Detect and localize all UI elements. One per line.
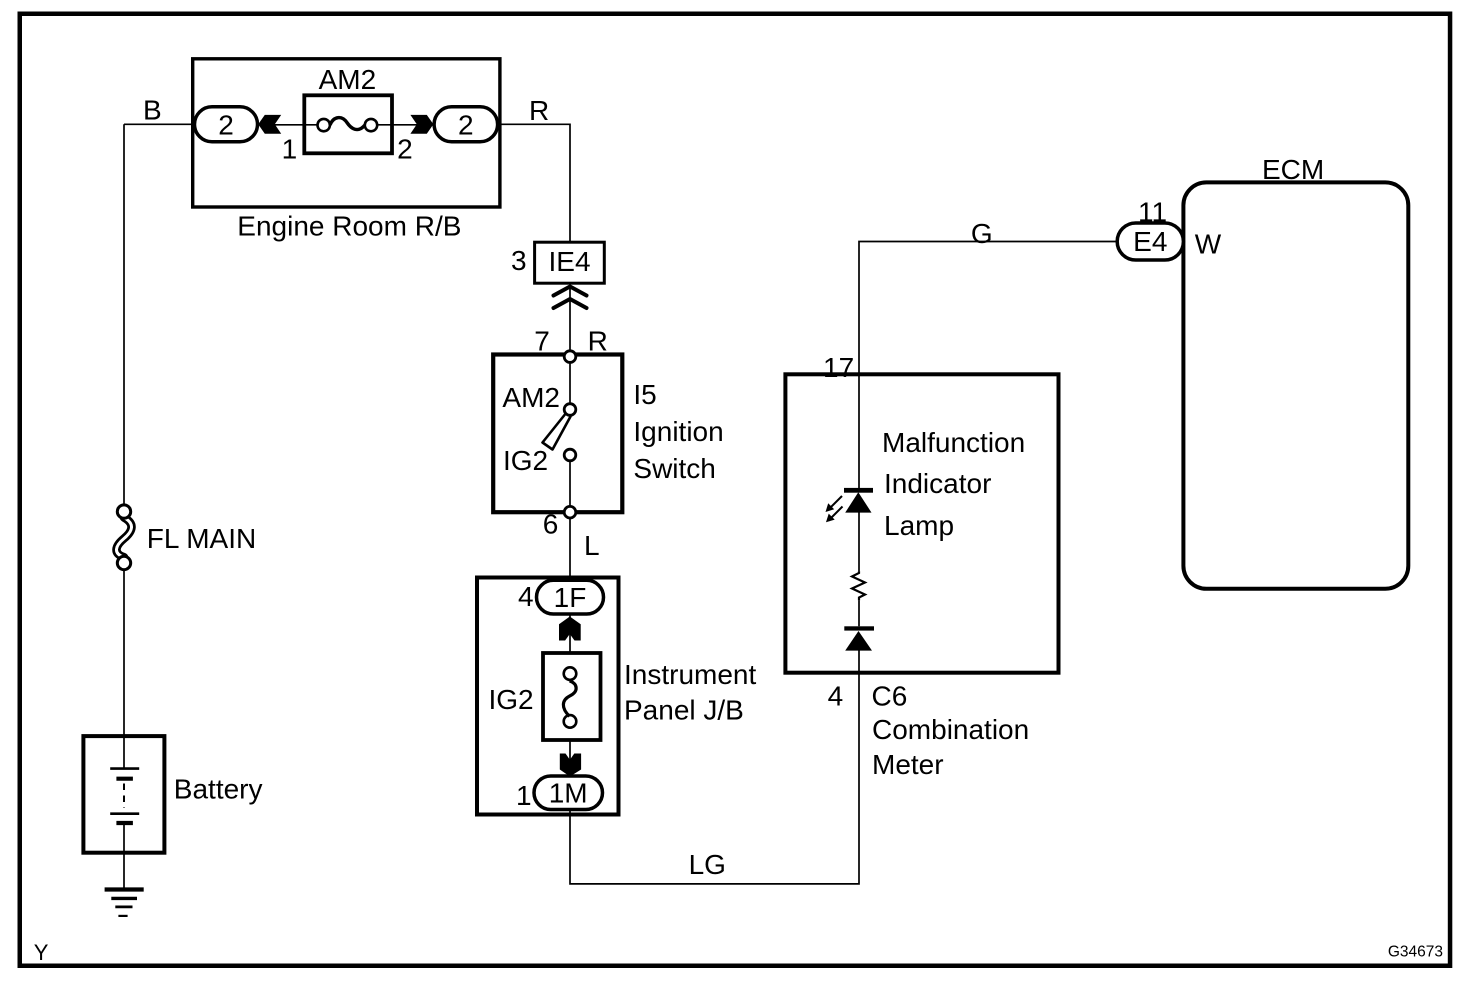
svg-text:Engine Room R/B: Engine Room R/B bbox=[237, 211, 461, 242]
svg-text:R: R bbox=[588, 326, 608, 357]
svg-text:AM2: AM2 bbox=[502, 382, 560, 413]
svg-text:17: 17 bbox=[823, 352, 854, 383]
svg-text:4: 4 bbox=[518, 581, 534, 612]
svg-text:W: W bbox=[1195, 229, 1222, 260]
svg-text:Y: Y bbox=[34, 940, 49, 965]
svg-text:FL MAIN: FL MAIN bbox=[147, 523, 256, 554]
svg-text:L: L bbox=[584, 530, 600, 561]
svg-text:1: 1 bbox=[282, 134, 298, 165]
svg-text:Meter: Meter bbox=[872, 749, 944, 780]
svg-text:4: 4 bbox=[828, 681, 844, 712]
svg-text:AM2: AM2 bbox=[319, 64, 377, 95]
svg-text:G: G bbox=[971, 218, 993, 249]
svg-text:C6: C6 bbox=[872, 681, 908, 712]
svg-text:Battery: Battery bbox=[174, 774, 263, 805]
svg-text:6: 6 bbox=[543, 509, 559, 540]
svg-text:IG2: IG2 bbox=[489, 684, 534, 715]
svg-text:1: 1 bbox=[516, 780, 532, 811]
svg-text:2: 2 bbox=[397, 134, 413, 165]
svg-text:2: 2 bbox=[218, 110, 234, 141]
svg-text:IE4: IE4 bbox=[548, 246, 590, 277]
svg-text:1F: 1F bbox=[554, 582, 587, 613]
svg-text:ECM: ECM bbox=[1262, 154, 1324, 185]
svg-text:3: 3 bbox=[511, 245, 527, 276]
svg-text:1M: 1M bbox=[549, 778, 588, 809]
svg-text:Panel J/B: Panel J/B bbox=[624, 694, 744, 725]
svg-text:Lamp: Lamp bbox=[884, 510, 954, 541]
svg-text:Switch: Switch bbox=[633, 453, 715, 484]
svg-text:Instrument: Instrument bbox=[624, 659, 756, 690]
svg-text:11: 11 bbox=[1138, 197, 1167, 228]
svg-text:IG2: IG2 bbox=[503, 445, 548, 476]
svg-text:B: B bbox=[143, 95, 162, 126]
svg-text:E4: E4 bbox=[1133, 226, 1167, 257]
svg-text:Ignition: Ignition bbox=[633, 416, 723, 447]
svg-text:I5: I5 bbox=[633, 379, 656, 410]
svg-text:2: 2 bbox=[458, 110, 474, 141]
svg-text:7: 7 bbox=[534, 326, 550, 357]
svg-text:G34673: G34673 bbox=[1388, 944, 1443, 961]
svg-text:LG: LG bbox=[689, 849, 726, 880]
svg-text:Malfunction: Malfunction bbox=[882, 427, 1025, 458]
svg-text:R: R bbox=[529, 95, 549, 126]
svg-text:Indicator: Indicator bbox=[884, 468, 991, 499]
svg-text:Combination: Combination bbox=[872, 714, 1029, 745]
